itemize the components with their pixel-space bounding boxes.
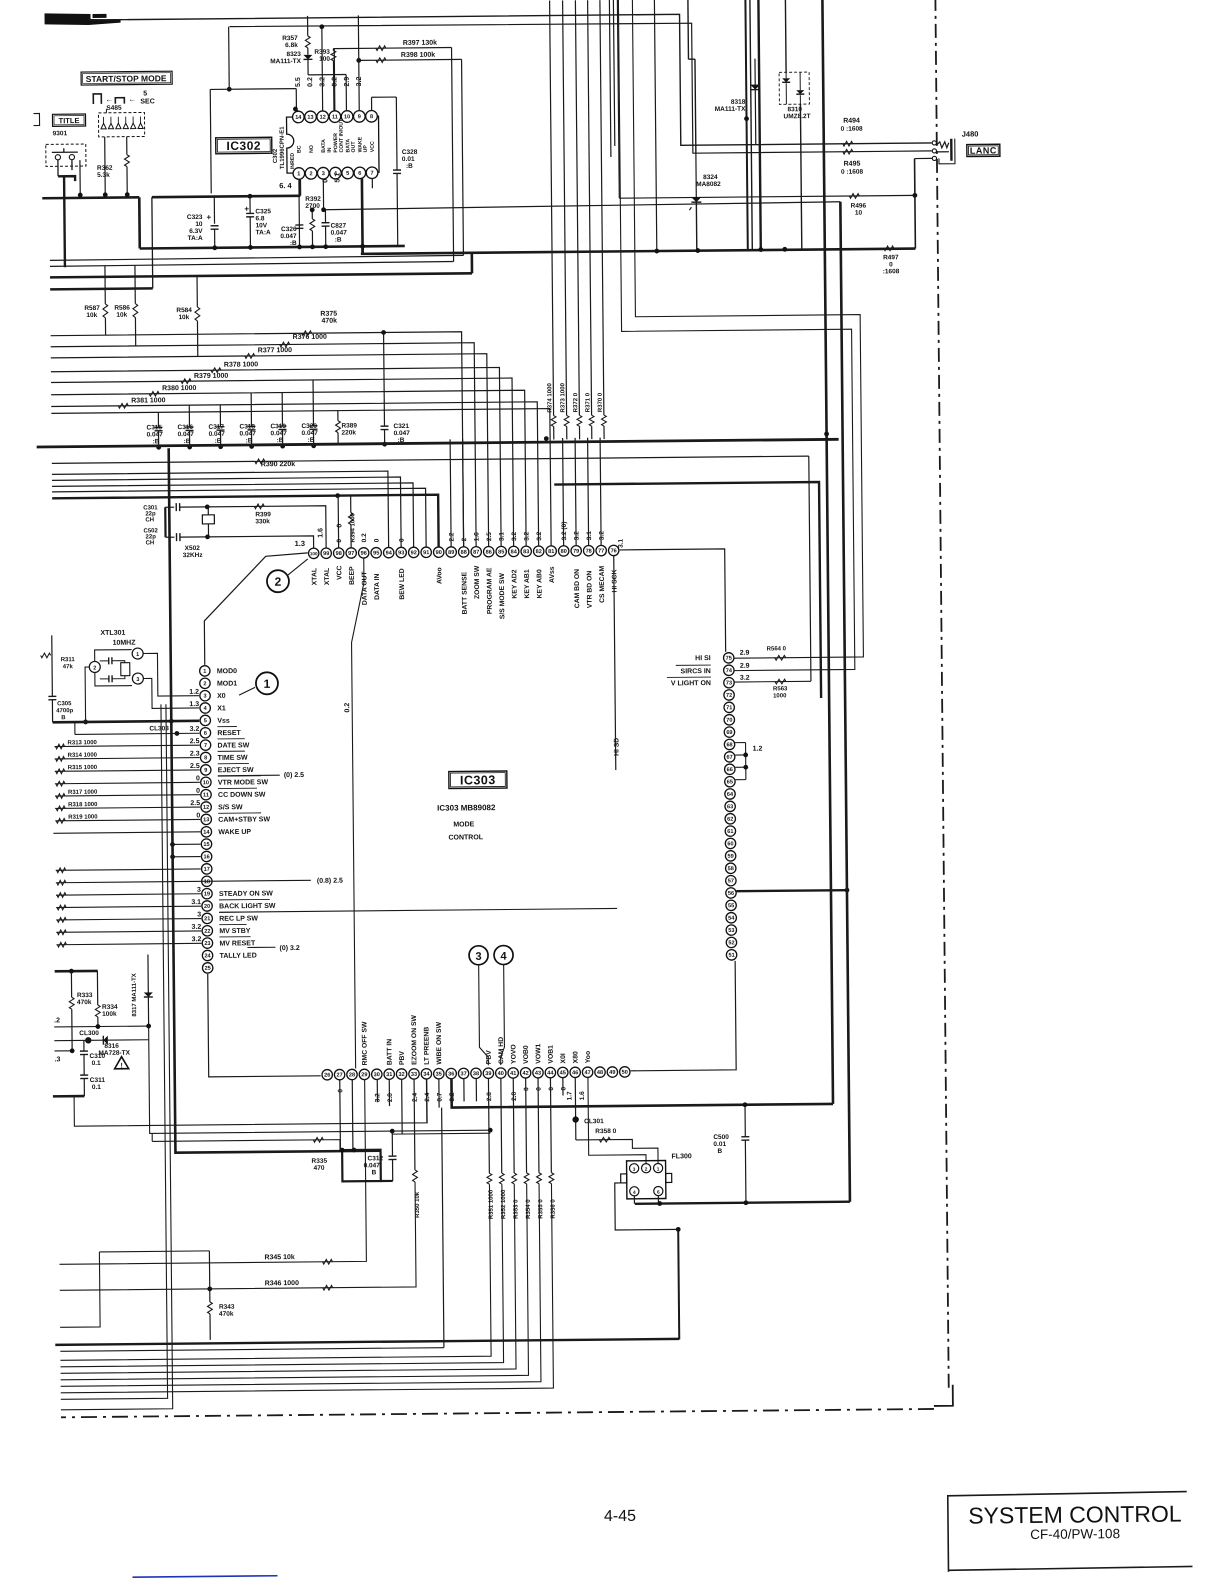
wire pin21 trace right — [219, 908, 617, 912]
resistor R317 1000 — [55, 795, 200, 796]
wire FL300 pin4/6 gnd — [633, 1196, 635, 1204]
svg-text:14: 14 — [295, 115, 302, 121]
wire pin38 stub — [475, 1078, 477, 1101]
wire bus thick y284 — [50, 287, 153, 291]
wire bus thick y252 — [361, 249, 916, 254]
svg-text:88: 88 — [461, 550, 467, 556]
IC303 pin 44 — [545, 1067, 555, 1077]
scan artifact blob — [45, 13, 121, 26]
svg-text:0.047: 0.047 — [302, 430, 319, 437]
IC303 pin 64 — [725, 789, 735, 799]
svg-text:38: 38 — [473, 1071, 479, 1077]
wire D317 down to y1129 — [149, 1023, 491, 1134]
IC303 pin 89 — [446, 547, 456, 557]
resistor R497 — [884, 246, 894, 251]
svg-text:R346 1000: R346 1000 — [265, 1280, 299, 1287]
svg-text:3.2: 3.2 — [536, 531, 543, 540]
svg-text:3.2: 3.2 — [192, 936, 202, 943]
svg-text:C500: C500 — [713, 1134, 729, 1141]
resistor R371 0 — [588, 0, 592, 415]
svg-text:SYSTEM CONTROL: SYSTEM CONTROL — [968, 1501, 1182, 1529]
svg-text:ZOOM SW: ZOOM SW — [474, 565, 481, 599]
svg-text:6: 6 — [358, 171, 361, 177]
svg-text:2.5: 2.5 — [190, 738, 200, 745]
svg-text:71: 71 — [726, 705, 732, 711]
wire gnd rail thick — [37, 439, 839, 447]
wire pin stub — [575, 438, 576, 545]
svg-text:MV STBY: MV STBY — [219, 928, 251, 935]
svg-text:TITLE: TITLE — [59, 116, 80, 125]
svg-text:4: 4 — [500, 951, 507, 963]
svg-text:EZOOM ON SW: EZOOM ON SW — [411, 1014, 418, 1064]
label TITLE — [52, 114, 85, 126]
svg-text:6: 6 — [204, 731, 207, 737]
svg-text:R497: R497 — [883, 254, 899, 261]
svg-text:.2: .2 — [54, 1017, 60, 1024]
wire thick gnd left — [53, 1095, 84, 1098]
svg-text:13: 13 — [307, 115, 313, 121]
wire R398 line — [359, 58, 462, 61]
svg-text:5.1: 5.1 — [334, 173, 341, 183]
board border corner — [934, 1385, 953, 1406]
svg-text:VTR BD ON: VTR BD ON — [586, 571, 593, 609]
svg-text:DATE SW: DATE SW — [218, 742, 250, 749]
svg-text:0.047: 0.047 — [331, 230, 348, 237]
capacitor C312 0.047 — [391, 1131, 393, 1156]
svg-text:6.8k: 6.8k — [285, 42, 298, 49]
wire R335 line — [152, 1140, 340, 1152]
wire thick vertical B — [840, 202, 850, 1202]
IC303 pin 36 — [446, 1068, 456, 1078]
wire S301 right — [79, 160, 81, 195]
svg-text:0.1: 0.1 — [92, 1084, 101, 1091]
svg-text:CS MECAM: CS MECAM — [599, 566, 606, 603]
svg-text:REC LP SW: REC LP SW — [219, 915, 258, 922]
svg-text:17: 17 — [204, 867, 210, 873]
svg-text:1: 1 — [297, 171, 300, 177]
svg-text:3: 3 — [322, 171, 325, 177]
wire pin15 stub — [172, 843, 200, 845]
callout 2 — [267, 570, 289, 592]
wire callout4 drop — [500, 965, 505, 1066]
resistor R389 220k — [337, 411, 339, 421]
svg-text:R377 1000: R377 1000 — [258, 347, 292, 354]
IC303 pin 10 VTR MODE SW — [201, 777, 211, 787]
wire C-rail — [140, 246, 405, 249]
label START/STOP MODE — [81, 71, 172, 85]
svg-text:37: 37 — [460, 1071, 466, 1077]
IC303 outline — [204, 553, 309, 665]
svg-text:44: 44 — [547, 1070, 554, 1076]
svg-text:0.047: 0.047 — [147, 431, 164, 438]
capacitor C318 0.047 — [250, 393, 252, 427]
svg-text:OUT: OUT — [351, 141, 357, 153]
svg-text:FL300: FL300 — [671, 1153, 691, 1160]
IC303 pin 76 — [608, 545, 618, 555]
svg-text:!: ! — [120, 1063, 122, 1070]
IC303 pin 7 DATE SW — [200, 740, 210, 750]
svg-text:3: 3 — [136, 677, 139, 683]
wire bus thick y272 — [50, 273, 472, 277]
resistor R496 10 — [849, 194, 859, 199]
svg-text:57: 57 — [728, 878, 734, 884]
svg-text::B: :B — [184, 438, 191, 445]
svg-text:HI SI: HI SI — [695, 655, 711, 662]
svg-text:CL301: CL301 — [584, 1118, 604, 1125]
svg-text:1.3: 1.3 — [295, 539, 306, 548]
svg-text:82: 82 — [536, 549, 542, 555]
svg-text:0: 0 — [560, 1086, 567, 1090]
wire pin3 drop — [322, 179, 324, 210]
IC303 pin 35 — [434, 1068, 444, 1078]
svg-text:V LIGHT ON: V LIGHT ON — [671, 680, 711, 687]
svg-text:7: 7 — [204, 743, 207, 749]
svg-text:16: 16 — [203, 854, 209, 860]
IC303 pin 96 — [358, 548, 368, 558]
svg-text:330k: 330k — [255, 518, 270, 525]
svg-text:+: + — [206, 213, 211, 222]
svg-text:33: 33 — [411, 1072, 417, 1078]
wire top net A — [89, 12, 932, 151]
svg-text:R317 1000: R317 1000 — [68, 790, 98, 796]
wire pin27 drop — [339, 1080, 342, 1150]
svg-text:UP: UP — [363, 145, 369, 153]
IC303 pin 38 — [471, 1068, 481, 1078]
wire IC302 left drop — [228, 27, 231, 90]
IC303 pin 16 — [201, 851, 211, 861]
svg-text:1.3: 1.3 — [189, 701, 199, 708]
svg-text:0.01: 0.01 — [713, 1141, 726, 1148]
IC303 pin 27 — [334, 1069, 344, 1079]
IC303 pin 6 RESET — [200, 728, 210, 738]
svg-text:100: 100 — [310, 551, 318, 556]
IC303 pin 83 — [521, 546, 531, 556]
label LANC — [967, 144, 1000, 156]
waveform icons — [93, 94, 101, 104]
wire thick U block — [342, 1150, 381, 1182]
svg-text:2.8: 2.8 — [511, 1091, 518, 1100]
svg-text:0: 0 — [548, 1087, 555, 1091]
IC303 pin 20 BACK LIGHT SW — [202, 901, 212, 911]
svg-text:0: 0 — [337, 1089, 344, 1093]
svg-text:5.3k: 5.3k — [97, 172, 110, 179]
IC302 pin 14 — [292, 111, 304, 123]
IC303 pin 22 MV STBY — [202, 926, 212, 936]
svg-text:B: B — [372, 1169, 377, 1176]
svg-text:9: 9 — [204, 768, 207, 774]
svg-text:IC303 MB89082: IC303 MB89082 — [437, 803, 496, 813]
svg-text:2.9: 2.9 — [740, 650, 750, 657]
IC303 pin 84 — [508, 546, 518, 556]
svg-text:63: 63 — [727, 804, 733, 810]
resistor R315 1000 — [55, 770, 200, 771]
IC302 pin9 wire up — [357, 15, 360, 110]
wire pin37 stub — [463, 1078, 465, 1101]
wire pin98 stub — [337, 496, 339, 548]
svg-text:R394 1000: R394 1000 — [350, 512, 356, 542]
IC302 pin 6 — [354, 167, 366, 179]
wire xtal upper to pin99 — [207, 506, 326, 549]
svg-text::1608: :1608 — [883, 268, 900, 275]
wire xtal lower to pin100 — [208, 536, 314, 549]
svg-text:AVoo: AVoo — [436, 567, 443, 584]
svg-text:CAM BD ON: CAM BD ON — [574, 569, 581, 608]
svg-text:TIME SW: TIME SW — [218, 755, 248, 762]
IC302 pin 1 — [293, 168, 305, 180]
svg-text:2.2: 2.2 — [448, 532, 455, 541]
svg-text:R351 1000: R351 1000 — [489, 1189, 495, 1219]
IC303 pin 62 — [725, 814, 735, 824]
svg-text:47: 47 — [584, 1070, 590, 1076]
svg-text:HI SCK: HI SCK — [611, 569, 618, 592]
wire pin28 drop — [351, 1080, 354, 1150]
svg-text:34: 34 — [423, 1072, 430, 1078]
svg-text:R374 1000: R374 1000 — [547, 383, 553, 413]
label (0) 2.5 — [218, 774, 280, 777]
IC303 pin 34 — [421, 1069, 431, 1079]
svg-text:PROGRAM AE: PROGRAM AE — [486, 567, 493, 614]
svg-text:62: 62 — [727, 817, 733, 823]
svg-text:0.047: 0.047 — [209, 431, 226, 438]
resistor R374 1000 — [550, 1, 554, 416]
IC303 pin 46 — [570, 1067, 580, 1077]
svg-text:C328: C328 — [402, 149, 418, 156]
capacitor C328 — [393, 169, 401, 171]
svg-text:MODE: MODE — [453, 821, 474, 828]
IC303 pin 73 — [724, 677, 734, 687]
wire stair y475 — [52, 477, 401, 550]
svg-text:65: 65 — [727, 779, 733, 785]
svg-text:R494: R494 — [843, 118, 860, 125]
svg-text:2: 2 — [645, 1167, 648, 1173]
IC303 pin 66 — [725, 764, 735, 774]
diode D318 MA111-TX — [754, 59, 756, 85]
wire callout3 drop — [479, 965, 489, 1066]
svg-text:HI SD: HI SD — [613, 738, 620, 756]
svg-text:BEW LED: BEW LED — [399, 568, 406, 599]
svg-text::B: :B — [153, 438, 160, 445]
IC303 pin 92 — [408, 547, 418, 557]
svg-text:68: 68 — [726, 742, 732, 748]
IC303 pin 77 — [596, 545, 606, 555]
svg-text:2.8: 2.8 — [387, 1093, 394, 1102]
svg-text:10k: 10k — [178, 314, 189, 321]
wire vertical x438 — [442, 1108, 444, 1348]
diode D323 MA111-TX — [307, 48, 309, 55]
IC303 pin 82 — [533, 546, 543, 556]
svg-text:2: 2 — [93, 665, 96, 671]
svg-text:9301: 9301 — [53, 130, 68, 137]
svg-text:0.7: 0.7 — [436, 1092, 443, 1101]
IC302 body — [287, 116, 380, 173]
IC303 pin 79 — [571, 546, 581, 556]
svg-text:0.2: 0.2 — [361, 533, 368, 542]
svg-text:VOB1: VOB1 — [548, 1045, 555, 1064]
junction dots rail — [695, 248, 700, 253]
svg-text:5: 5 — [204, 718, 207, 724]
svg-text::B: :B — [290, 240, 297, 247]
svg-text:8: 8 — [204, 755, 207, 761]
wire pin33 drop R350 — [413, 1079, 416, 1170]
svg-text:3.1: 3.1 — [586, 531, 593, 540]
capacitor C323 — [213, 197, 215, 224]
svg-text:84: 84 — [511, 549, 518, 555]
svg-text:R313 1000: R313 1000 — [67, 740, 97, 746]
resistor R352 1000 — [500, 1078, 503, 1173]
svg-text:10MHZ: 10MHZ — [113, 640, 137, 647]
wire IC302 gnd rail — [42, 196, 139, 200]
svg-text:31: 31 — [386, 1072, 392, 1078]
IC303 pin 93 — [396, 547, 406, 557]
connector J480 stub — [915, 157, 932, 159]
svg-text:10: 10 — [203, 780, 209, 786]
svg-text:X80: X80 — [572, 1051, 579, 1063]
resistor R564 0 — [775, 655, 786, 660]
resistor R397 130k — [376, 46, 386, 51]
resistor R390 220k — [52, 456, 809, 463]
svg-text:VOW1: VOW1 — [535, 1043, 542, 1063]
IC303 pin 48 — [595, 1067, 605, 1077]
capacitor C310 0.1 — [83, 1040, 85, 1051]
svg-text:83: 83 — [523, 549, 529, 555]
svg-text:START/STOP MODE: START/STOP MODE — [86, 73, 167, 84]
svg-text:28: 28 — [349, 1072, 355, 1078]
IC303 pin 33 — [409, 1069, 419, 1079]
wire pin30 stub — [376, 1079, 378, 1102]
IC302 pin 11 — [329, 111, 341, 123]
svg-text:21: 21 — [204, 916, 210, 922]
IC303 pin 9 EJECT SW — [201, 765, 211, 775]
IC303 pin 3 X0 — [200, 690, 210, 700]
svg-text:29: 29 — [361, 1072, 367, 1078]
svg-text::B: :B — [335, 237, 342, 244]
IC303 pin 58 — [725, 863, 735, 873]
svg-text:B: B — [717, 1148, 722, 1155]
svg-text:470k: 470k — [77, 999, 92, 1006]
svg-text:0.047: 0.047 — [364, 1162, 381, 1169]
svg-text:2.8: 2.8 — [486, 1092, 493, 1101]
wire x702 vertical — [694, 59, 697, 154]
wire pin19 line — [56, 894, 201, 895]
svg-text:58: 58 — [728, 866, 734, 872]
wire vertical x662 — [654, 0, 656, 251]
resistor R495 — [843, 149, 853, 154]
svg-text:R315 1000: R315 1000 — [68, 765, 98, 771]
svg-text:NO: NO — [309, 145, 315, 153]
svg-text:2: 2 — [275, 575, 282, 589]
svg-text:UMZ8.2T: UMZ8.2T — [783, 113, 810, 120]
svg-text:12: 12 — [203, 805, 209, 811]
IC303 pin 1 MOD0 — [200, 666, 210, 676]
svg-text:0.047: 0.047 — [240, 430, 257, 437]
svg-text:1: 1 — [136, 652, 139, 658]
svg-text:55: 55 — [728, 903, 734, 909]
svg-text:PBV: PBV — [399, 1051, 406, 1066]
svg-text:Yoo: Yoo — [585, 1051, 592, 1063]
svg-text:81: 81 — [548, 549, 554, 555]
svg-text:27: 27 — [336, 1072, 342, 1078]
svg-text:VCC: VCC — [336, 565, 343, 580]
svg-text:MA111-TX: MA111-TX — [715, 106, 746, 113]
IC303 pin 60 — [725, 838, 735, 848]
svg-text:54: 54 — [728, 916, 735, 922]
svg-text:45: 45 — [560, 1070, 566, 1076]
resistor R394 1000 — [350, 495, 352, 512]
svg-text:1: 1 — [203, 669, 206, 675]
wire R397 drop — [452, 48, 454, 262]
wire R397 line — [333, 48, 451, 49]
svg-text:R587: R587 — [84, 305, 100, 312]
IC303 pin 24 TALLY LED — [202, 950, 212, 960]
wire vertical x621 — [613, 0, 614, 146]
IC303 pin 88 — [458, 547, 468, 557]
resistor R393 — [332, 49, 334, 51]
IC303 pin 26 — [322, 1069, 332, 1079]
IC303 pin 75 — [723, 653, 733, 663]
svg-text:100: 100 — [319, 56, 330, 63]
wire pin34 drop — [425, 1079, 427, 1123]
svg-text:47k: 47k — [63, 664, 74, 670]
IC303 pin 13 CAM+STBY SW — [201, 814, 211, 824]
IC303 pin 78 — [583, 545, 593, 555]
wire pin stub — [600, 438, 601, 545]
svg-text:3: 3 — [197, 887, 201, 894]
svg-text:75: 75 — [726, 656, 732, 662]
svg-text:R496: R496 — [851, 203, 867, 210]
wire pin20 line — [56, 906, 201, 907]
IC303 pin 49 — [607, 1067, 617, 1077]
svg-text:IC303: IC303 — [460, 773, 496, 787]
svg-text:3.2: 3.2 — [598, 531, 605, 540]
IC303 pin 30 — [372, 1069, 382, 1079]
IC303 pin 53 — [726, 925, 736, 935]
svg-text:40: 40 — [498, 1071, 504, 1077]
wire XTL2 left — [85, 667, 90, 722]
capacitor C326 — [295, 224, 303, 226]
svg-text:CH: CH — [146, 540, 155, 546]
resistor R356 0 — [549, 1078, 552, 1173]
wire bus y260 — [50, 261, 454, 266]
IC303 pin 31 — [384, 1069, 394, 1079]
svg-text:15: 15 — [203, 842, 209, 848]
wire pin36 thick drop — [451, 1075, 833, 1108]
svg-text:50: 50 — [622, 1070, 628, 1076]
svg-text:0: 0 — [536, 1087, 543, 1091]
svg-text:24: 24 — [204, 953, 211, 959]
svg-text:0: 0 — [336, 524, 343, 528]
svg-text:3: 3 — [633, 1167, 636, 1173]
svg-text:13: 13 — [203, 817, 209, 823]
wire vertical x166 — [54, 704, 173, 1410]
resistor R351 1000 — [487, 1078, 490, 1173]
wire pin16 stub — [173, 856, 201, 858]
wire riser to y1121 — [74, 1079, 427, 1126]
svg-text:KEY AB1: KEY AB1 — [524, 569, 531, 598]
svg-text:93: 93 — [398, 550, 404, 556]
svg-text:CF-40/PW-108: CF-40/PW-108 — [1030, 1526, 1120, 1542]
IC303 pin 32 — [396, 1069, 406, 1079]
wire pin21 line — [56, 919, 201, 920]
board border dash-dot bottom — [61, 1409, 934, 1417]
resistor R375 470k — [51, 332, 464, 551]
svg-text:R390 220k: R390 220k — [261, 461, 295, 468]
svg-text:25: 25 — [205, 966, 211, 972]
wire R398 drop — [462, 59, 464, 255]
resistor R355 0 — [537, 1078, 540, 1173]
svg-text:TALLY LED: TALLY LED — [220, 953, 257, 960]
resistor R379 1000 — [51, 378, 514, 550]
IC303 pin 56 — [726, 888, 736, 898]
